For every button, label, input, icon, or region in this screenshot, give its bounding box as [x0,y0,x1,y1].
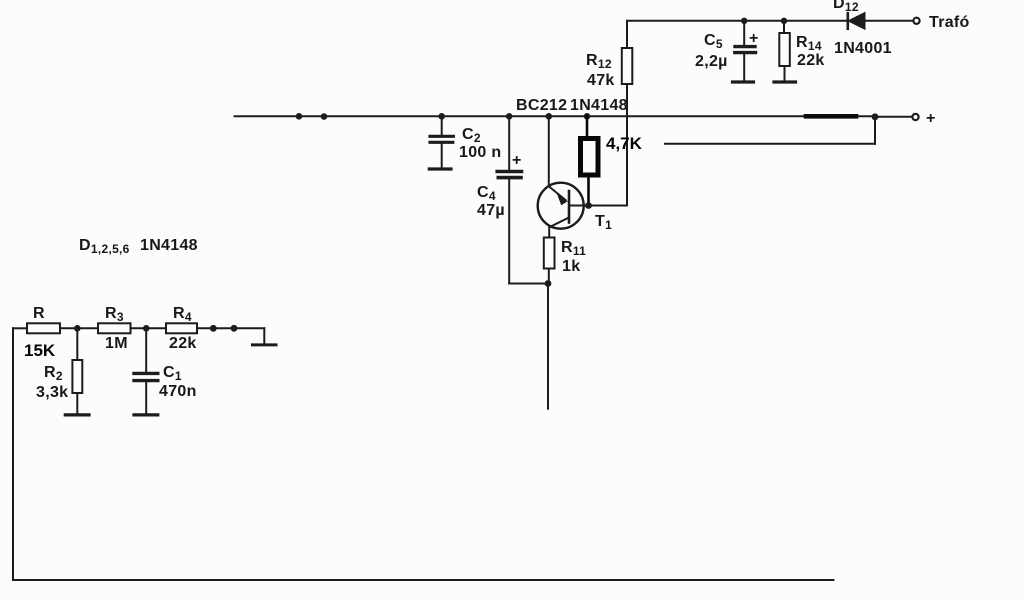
svg-text:1k: 1k [562,258,580,275]
svg-text:2,2µ: 2,2µ [695,53,728,70]
svg-text:1N4148: 1N4148 [140,237,198,254]
wire R to R3 [60,327,98,329]
svg-text:22k: 22k [169,335,197,352]
resistor R4 [166,323,197,333]
svg-text:100 n: 100 n [459,144,501,161]
transistor T1 BC212 [538,183,589,229]
wire internal positive rail [235,115,874,117]
wire plus rail down to T3 collector line [874,117,876,144]
svg-text:3,3k: 3,3k [36,384,68,401]
label 4,7K [606,134,643,153]
svg-text:+: + [512,152,522,169]
label R14 [796,34,825,69]
label plus [926,110,936,127]
label R12 [586,52,615,89]
label R2 [36,364,68,401]
node T1 base junction [585,202,592,209]
capacitor C2 [429,116,453,169]
diode D12 [848,13,865,29]
bold overdraw segment on plus rail [806,114,856,119]
node 4.7K top [584,113,591,120]
node C2 top [438,113,445,120]
label R11 [561,239,586,275]
label R4 [169,305,197,352]
label D1256 1N4148 [79,237,198,256]
node C1 top [143,325,150,332]
ground R2 [65,413,89,416]
wire input line left corner [13,327,27,329]
wire R11 junction down to R10 node [547,284,549,409]
label C1 [159,364,197,400]
label T1 [595,213,612,232]
node R2 top [74,325,81,332]
node R14 top [781,18,787,24]
wire D12 to Trafo terminal [865,20,913,22]
wire node line to virtual ground [213,327,264,329]
label C4 plus [512,152,522,169]
svg-text:D12: D12 [833,0,859,14]
node D1 D2 junction [231,325,238,332]
terminal Trafo [913,18,919,24]
node stray dot on rail [321,113,328,120]
resistor 4.7K bold added [581,116,599,205]
node input junction [210,325,217,332]
resistor R11 with T1 collector wire [544,227,555,284]
svg-text:+: + [749,30,759,47]
capacitor C1 [134,328,158,413]
resistor R12 with wire from top rail [622,21,633,206]
svg-text:Trafó: Trafó [929,14,970,31]
wire bottom border [13,579,834,581]
capacitor C4 [497,116,521,283]
node C4 top [506,113,513,120]
node C4 R11 junction [545,280,552,287]
svg-text:47k: 47k [587,72,615,89]
node C5 top [741,18,747,24]
svg-text:BC212: BC212 [516,97,567,114]
label BC212 1N4148 [516,97,628,114]
wire R4 to node [197,327,213,329]
label C5 [695,32,728,70]
label 15K added [24,341,56,360]
node pin8 on rail [296,113,303,120]
label Trafo [929,14,970,31]
node T1 emitter on rail [546,113,553,120]
svg-text:470n: 470n [159,383,197,400]
resistor R2 [72,328,82,413]
wire R3 to R4 [131,327,167,329]
wire left border [12,328,14,580]
wire T1 emitter [548,116,550,184]
svg-text:+: + [926,110,936,127]
label 1N4001 [834,40,892,57]
resistor R14 [774,21,796,82]
svg-text:1N4001: 1N4001 [834,40,892,57]
svg-text:R: R [33,305,45,322]
capacitor C5 [733,21,756,82]
wire T3 collector horizontal line [665,143,875,145]
svg-text:1M: 1M [105,335,128,352]
terminal plus output [912,114,918,120]
label D12 (cut at top) [833,0,859,14]
wire R12 bottom to T1 base junction [589,205,628,207]
resistor R input [27,323,60,333]
wire top rail from R12 corner to D12 [627,20,848,22]
svg-text:22k: 22k [797,52,825,69]
svg-text:47µ: 47µ [477,202,505,219]
label C4 [477,184,505,219]
label R [33,305,45,322]
wire C4 bottom to R11 junction [509,283,548,285]
ground C1 [134,413,158,416]
label R3 [105,305,128,352]
svg-text:1N4148: 1N4148 [570,97,628,114]
ground virtual reference [253,328,277,345]
label C5 plus [749,30,759,47]
node plus rail junction [872,113,879,120]
label C2 [459,126,501,161]
svg-text:15K: 15K [24,341,56,360]
svg-text:4,7K: 4,7K [606,134,643,153]
resistor R3 [98,323,131,333]
wire rail to plus terminal [877,116,912,118]
